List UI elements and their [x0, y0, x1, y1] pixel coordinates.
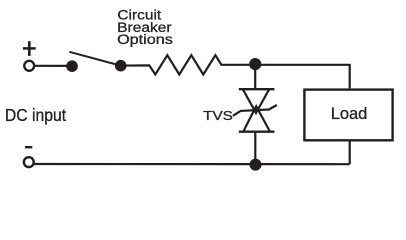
svg-text:Load: Load [331, 104, 368, 123]
svg-text:TVS: TVS [203, 108, 233, 123]
svg-text:Options: Options [117, 32, 173, 48]
svg-text:DC input: DC input [5, 106, 66, 125]
